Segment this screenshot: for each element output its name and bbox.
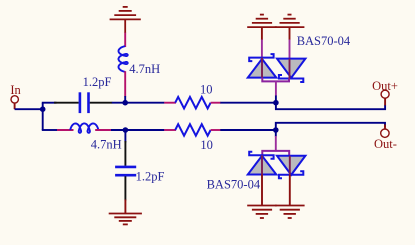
pin R1 right — [211, 102, 221, 104]
capacitor C1 1.2pF plates — [79, 92, 82, 113]
ground GND bottom block left — [247, 206, 277, 219]
wire top branch to C1 — [42, 102, 57, 104]
diode D1a (left, cathode up) body — [248, 59, 276, 78]
wire R1 to junction Out+ — [220, 102, 276, 104]
pin through D2a — [261, 155, 263, 174]
pin L2 right — [95, 129, 111, 131]
pin D1 right anode to ground — [289, 27, 291, 40]
node junction top-right — [273, 100, 279, 106]
diode D1a schottky cathode bar — [249, 54, 273, 61]
pin C1 right (black) — [90, 102, 113, 104]
pin D1 left cathode to ground — [261, 27, 263, 40]
svg-text:In: In — [10, 83, 21, 97]
pin R2 right — [211, 129, 221, 131]
pin R1 left — [164, 102, 176, 104]
wire C2 to ground — [124, 200, 126, 214]
pin through D1a — [261, 58, 263, 78]
svg-text:10: 10 — [200, 138, 213, 152]
pin through D2b — [289, 156, 291, 175]
pin C1 left (black) — [54, 102, 79, 104]
stem rail to top junction — [275, 81, 277, 96]
diode D2a schottky cathode bar — [249, 152, 273, 159]
node junction under L1 — [122, 100, 128, 106]
pin L2 left — [57, 129, 74, 131]
diode D1b schottky cathode bar — [279, 75, 303, 82]
port In terminal circle — [11, 96, 18, 103]
node junction In tee — [40, 106, 46, 112]
svg-text:BAS70-04: BAS70-04 — [207, 178, 261, 192]
capacitor C2 1.2pF plates — [115, 166, 136, 169]
wire vertical splitter — [42, 103, 44, 130]
wire bottom branch from splitter to L2 — [42, 129, 58, 131]
svg-text:4.7nH: 4.7nH — [129, 62, 160, 76]
port Out+ terminal circle — [381, 90, 389, 98]
ground GND top-left (flipped, above L1) — [110, 7, 141, 33]
wire junction to C2 — [124, 130, 126, 143]
diode D2b schottky cathode bar — [279, 171, 303, 178]
rail bottom of top diode pair — [262, 78, 289, 82]
node junction above C2 — [123, 127, 129, 133]
resistor R1 10 (zigzag) — [175, 97, 210, 109]
wire R2 to junction Out- — [220, 129, 275, 131]
diode D2a (left, cathode up) body — [248, 156, 276, 175]
resistor R2 10 (zigzag) — [175, 124, 210, 136]
pin through D1b — [289, 59, 291, 79]
svg-text:BAS70-04: BAS70-04 — [297, 34, 351, 48]
wire C1 to R1 — [112, 102, 165, 104]
wire (pin) from GND to L1 — [124, 33, 126, 47]
port Out+ stem — [384, 98, 386, 105]
inductor L1 4.7nH (vertical coil) — [119, 46, 128, 72]
ground GND below C2 — [109, 214, 142, 225]
pin C2 bottom (black) — [124, 176, 126, 200]
wire L2 to R2 — [111, 129, 164, 131]
pin D2a anode to ground — [261, 175, 263, 206]
ground GND top block left (flipped) — [247, 15, 277, 28]
rail top of bottom diode pair — [262, 151, 289, 156]
svg-text:4.7nH: 4.7nH — [91, 138, 122, 152]
svg-text:1.2pF: 1.2pF — [136, 169, 165, 183]
pin R2 left — [164, 129, 176, 131]
wire L1 to top branch — [124, 96, 126, 103]
ground GND top block right (flipped) — [275, 15, 305, 28]
pin C2 top (black) — [124, 141, 126, 166]
pin below L1 — [124, 71, 126, 96]
wire jog down to Out+ rail — [276, 103, 385, 110]
node junction bottom-right — [273, 127, 279, 133]
diode D1b (right, cathode down) body — [277, 59, 305, 78]
pin D2b cathode to ground — [289, 175, 291, 206]
wire In to junction — [15, 108, 43, 110]
wire jog up to Out- rail — [276, 123, 385, 130]
inductor L2 4.7nH (horizontal coil) — [70, 123, 98, 132]
port Out- terminal circle — [381, 129, 389, 137]
svg-text:Out-: Out- — [374, 137, 397, 151]
port In stem — [14, 103, 16, 109]
stem bottom junction to rail — [275, 130, 277, 137]
diode D2b (right, cathode down) body — [277, 156, 305, 175]
svg-text:1.2pF: 1.2pF — [83, 75, 112, 89]
ground GND bottom block right — [275, 206, 305, 219]
svg-text:Out+: Out+ — [372, 79, 398, 93]
port Out- stem — [384, 125, 386, 130]
svg-text:10: 10 — [200, 82, 213, 96]
